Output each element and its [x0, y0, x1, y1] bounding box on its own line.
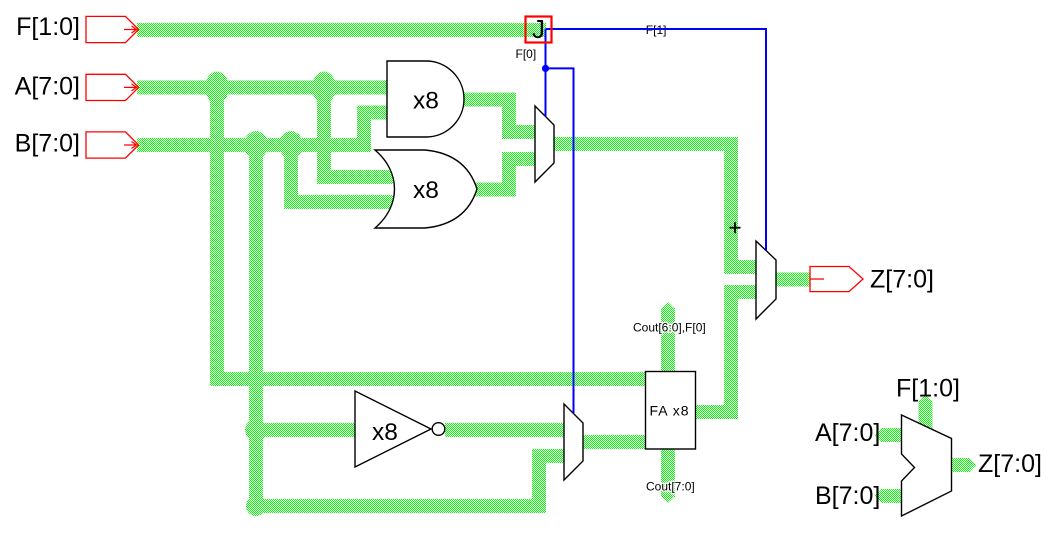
svg-text:Z[7:0]: Z[7:0]: [978, 450, 1042, 478]
svg-text:B[7:0]: B[7:0]: [15, 130, 80, 158]
svg-text:F[1:0]: F[1:0]: [16, 13, 80, 41]
svg-text:F[1:0]: F[1:0]: [896, 375, 960, 403]
svg-text:B[7:0]: B[7:0]: [815, 482, 880, 510]
svg-text:x8: x8: [413, 88, 439, 115]
svg-text:x8: x8: [413, 177, 439, 204]
svg-text:Z[7:0]: Z[7:0]: [870, 266, 934, 294]
svg-text:A[7:0]: A[7:0]: [815, 419, 880, 447]
svg-text:J: J: [532, 14, 545, 44]
svg-text:Cout[6:0],F[0]: Cout[6:0],F[0]: [633, 321, 706, 335]
svg-text:FA x8: FA x8: [649, 403, 689, 419]
svg-text:x8: x8: [372, 419, 398, 446]
svg-text:F[0]: F[0]: [516, 47, 537, 61]
svg-text:Cout[7:0]: Cout[7:0]: [646, 480, 695, 494]
svg-text:A[7:0]: A[7:0]: [15, 73, 80, 101]
